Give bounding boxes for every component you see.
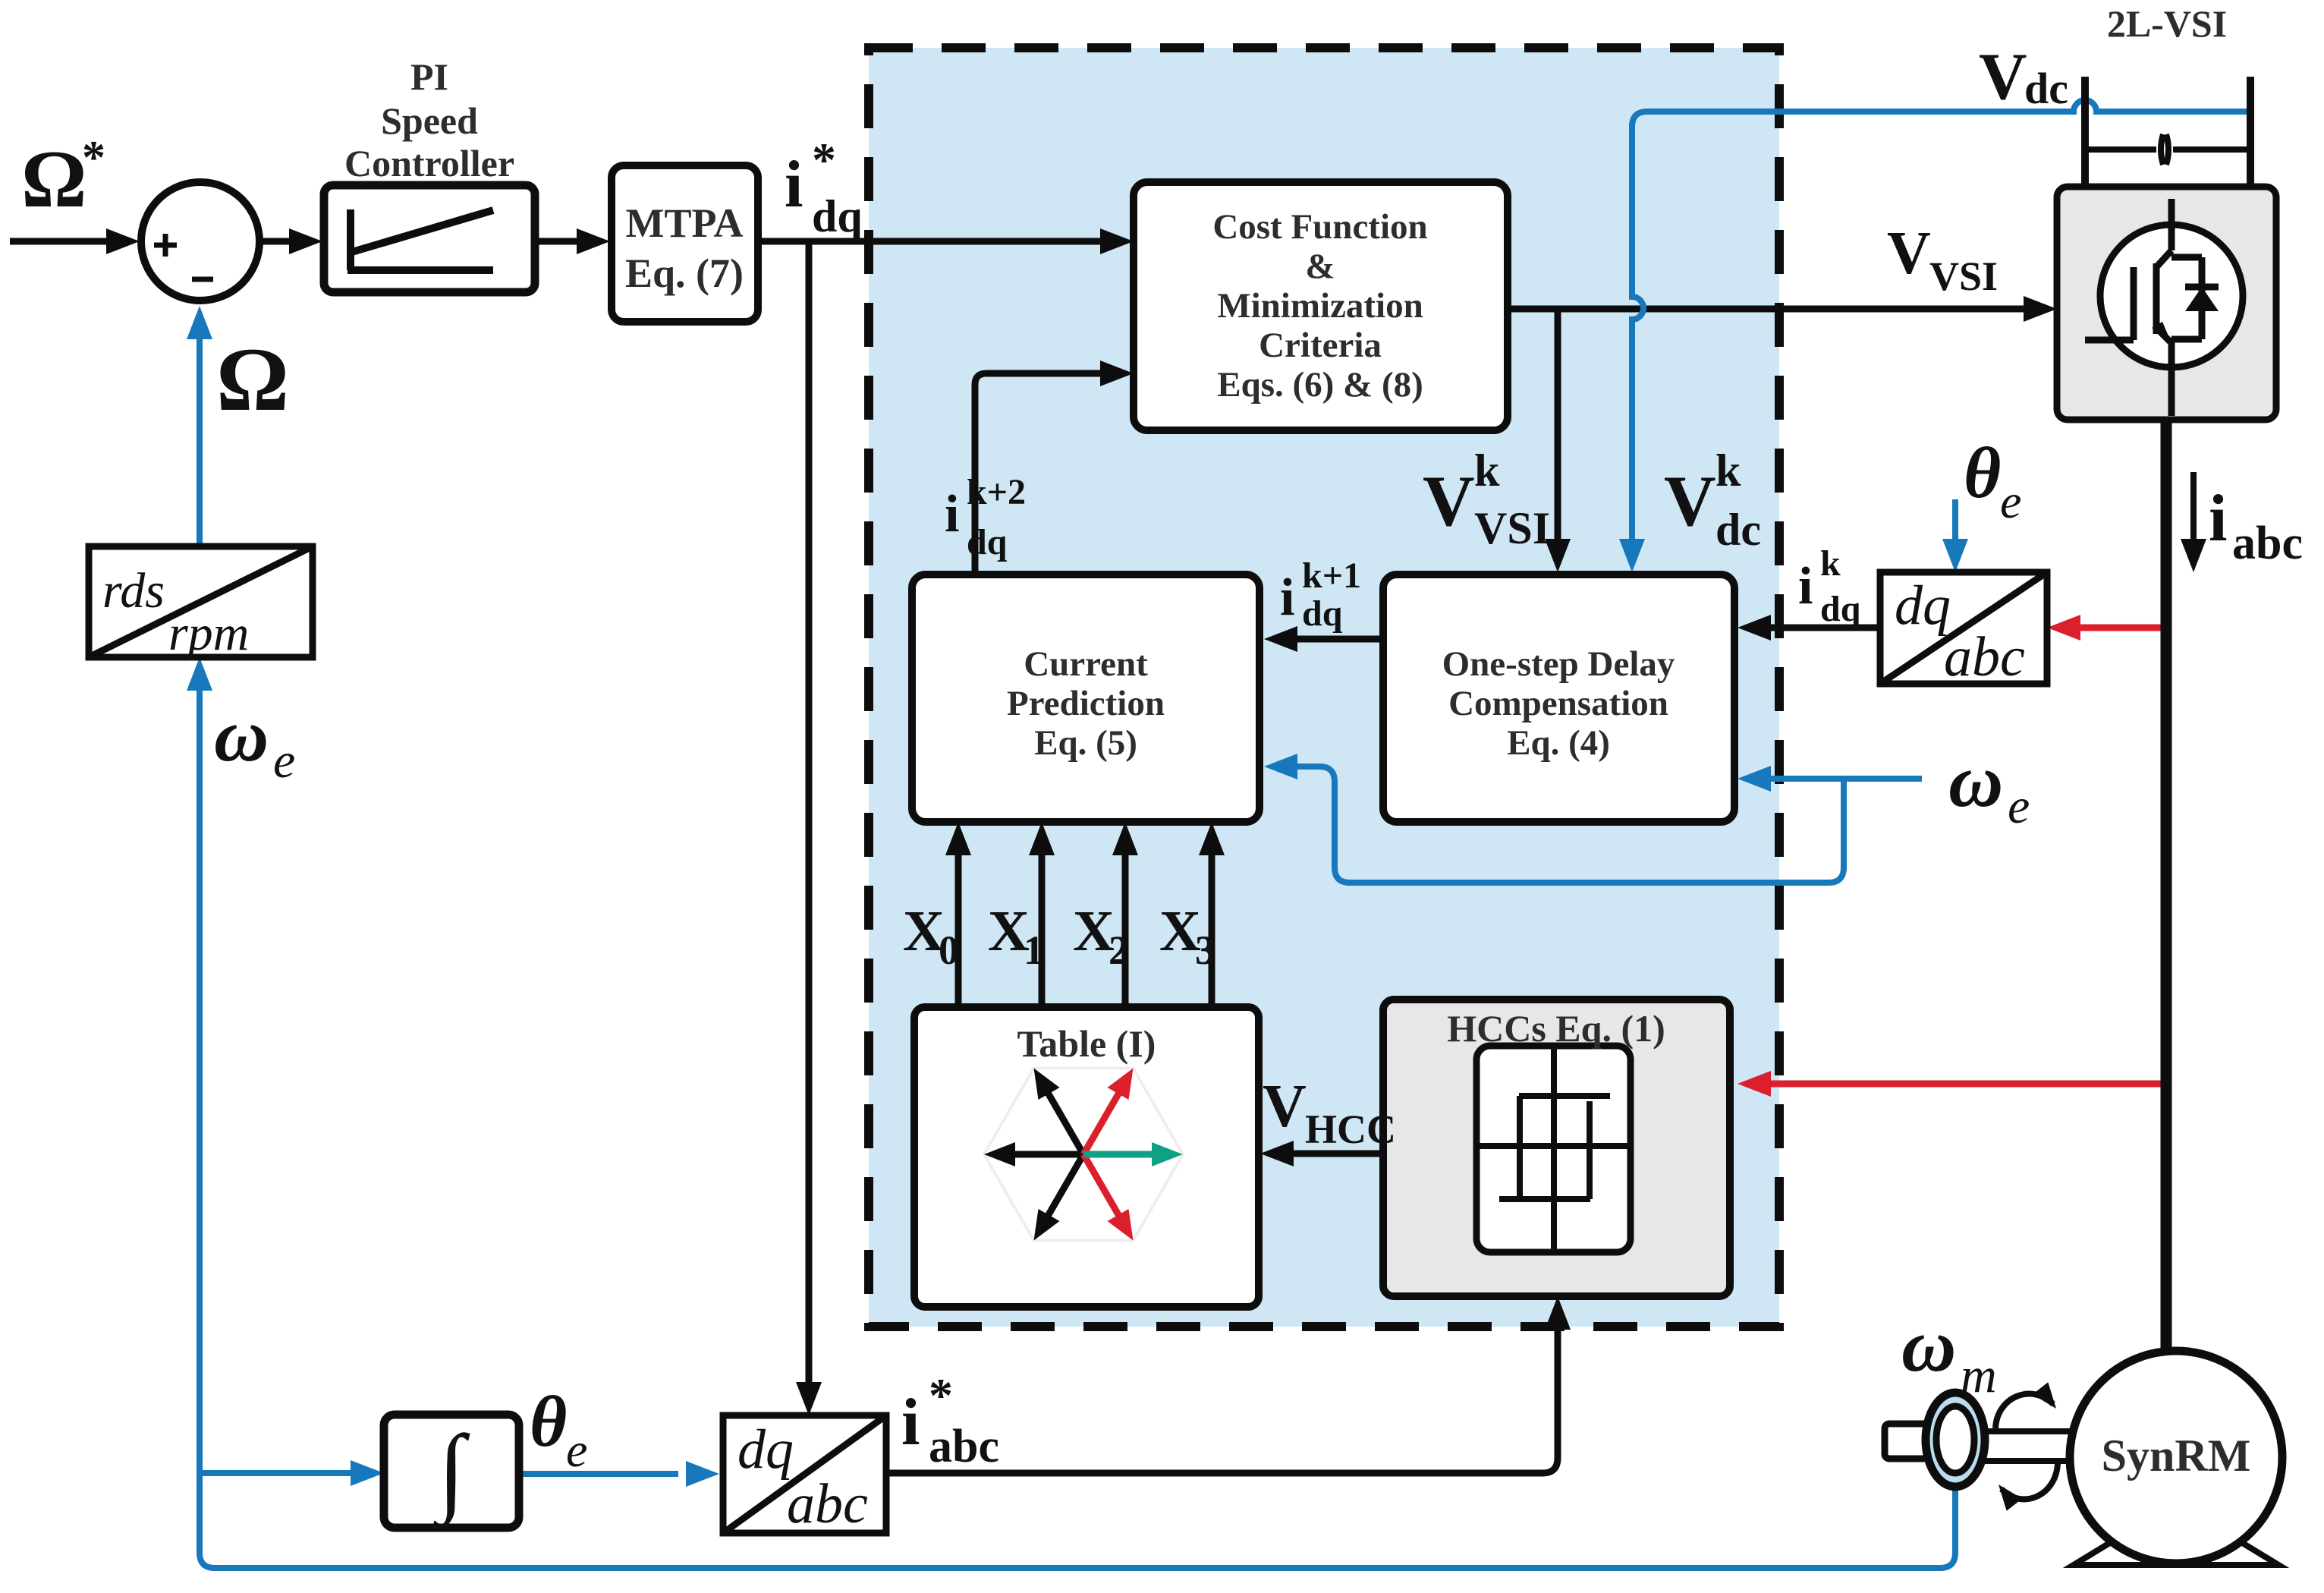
wire blue integrator to dq/abc (theta e)	[519, 1471, 678, 1477]
integrator block	[384, 1415, 519, 1528]
svg-text:ω: ω	[1948, 738, 2003, 823]
svg-text:*: *	[929, 1368, 953, 1422]
DC link capacitor	[2085, 146, 2156, 153]
svg-text:PI: PI	[410, 55, 448, 98]
summing junction	[141, 182, 259, 301]
svg-text:dq: dq	[1820, 589, 1861, 629]
wire blue rds/rpm to summing junction (Omega)	[197, 338, 203, 546]
wire blue omega e to One-step Delay	[1769, 776, 1922, 782]
svg-text:V: V	[1979, 40, 2027, 114]
dq/abc transform (measurement, right)	[1880, 572, 2047, 684]
vector 300 deg (red)	[1083, 1154, 1134, 1241]
vector V0 left (black)	[984, 1142, 1083, 1166]
Current Prediction block	[912, 575, 1259, 822]
svg-text:e: e	[2008, 779, 2030, 834]
svg-text:Ω: Ω	[216, 329, 289, 430]
2L-VSI block	[2057, 187, 2276, 420]
wire blue branch to integrator	[200, 1470, 352, 1476]
wire X0 arrow	[955, 854, 962, 1004]
wire One-step Delay to Current Prediction (i k+1 dq)	[1296, 636, 1383, 643]
wire X1 arrow	[1039, 854, 1046, 1004]
svg-text:dq: dq	[1302, 593, 1343, 634]
svg-text:&: &	[1305, 247, 1335, 286]
svg-text:SynRM: SynRM	[2102, 1431, 2251, 1481]
svg-text:ω: ω	[214, 693, 269, 777]
svg-text:rpm: rpm	[168, 606, 249, 661]
svg-text:HCCs Eq. (1): HCCs Eq. (1)	[1447, 1007, 1665, 1050]
wire dq/abc to One-step Delay (i k dq)	[1769, 625, 1880, 631]
wire summing junction to PI	[263, 238, 291, 245]
svg-text:VSI: VSI	[1474, 503, 1550, 553]
svg-text:1: 1	[1024, 927, 1044, 973]
wire i k+2 dq feedback to Cost Function	[975, 373, 1102, 575]
svg-text:0: 0	[939, 927, 959, 973]
svg-text:i: i	[945, 485, 959, 543]
svg-text:rds: rds	[102, 563, 165, 619]
svg-text:i: i	[901, 1386, 920, 1459]
svg-text:i: i	[1798, 557, 1813, 615]
wire blue theta e stub into dq/abc	[1952, 499, 1958, 540]
wire Omega* input	[10, 238, 109, 245]
svg-text:2: 2	[1109, 927, 1129, 973]
svg-text:m: m	[1961, 1348, 1997, 1403]
svg-text:Eq. (4): Eq. (4)	[1507, 723, 1610, 763]
wire X2 arrow	[1122, 854, 1129, 1004]
svg-text:HCC: HCC	[1305, 1107, 1396, 1152]
svg-text:∫: ∫	[432, 1415, 470, 1529]
svg-text:dq: dq	[812, 191, 863, 241]
svg-text:Criteria: Criteria	[1259, 326, 1382, 365]
wire X3 arrow	[1209, 854, 1215, 1004]
svg-text:i: i	[2209, 482, 2227, 556]
svg-text:Compensation: Compensation	[1448, 684, 1668, 723]
wire i*abc from dq/abc up into HCCs	[886, 1328, 1558, 1473]
svg-text:Cost Function: Cost Function	[1212, 207, 1427, 247]
svg-text:θ: θ	[1964, 433, 2001, 513]
dq/abc transform (reference, bottom)	[723, 1415, 886, 1533]
svg-text:abc: abc	[929, 1421, 999, 1472]
svg-text:dc: dc	[2024, 64, 2068, 113]
wire MTPA to Cost Function (i*dq)	[758, 238, 1102, 245]
svg-text:k+1: k+1	[1302, 556, 1361, 596]
svg-text:e: e	[273, 733, 295, 789]
IGBT symbol	[2100, 225, 2243, 367]
svg-text:V: V	[1423, 461, 1475, 541]
rotation arrows	[1995, 1394, 2053, 1428]
svg-text:θ: θ	[530, 1381, 567, 1462]
svg-text:i: i	[1280, 568, 1294, 627]
wire blue omega e branch to Current Prediction	[1296, 767, 1844, 883]
svg-text:k: k	[1474, 445, 1500, 496]
wire blue Vk dc vertical with hop over VVSI line	[1632, 123, 1643, 540]
hexagon (space vectors)	[984, 1069, 1183, 1241]
svg-text:2L-VSI: 2L-VSI	[2107, 2, 2227, 45]
HCCs block	[1383, 1000, 1730, 1296]
wire i*dq branch down to dq/abc	[806, 241, 813, 1384]
svg-text:V: V	[1664, 461, 1716, 541]
wire Vk VSI branch down to One-step Delay	[1555, 309, 1561, 540]
svg-text:dq: dq	[1895, 575, 1951, 637]
wire HCCs to Table (V HCC)	[1292, 1151, 1383, 1157]
svg-text:e: e	[2000, 474, 2021, 528]
svg-text:Eq. (7): Eq. (7)	[625, 250, 744, 296]
svg-text:V: V	[1263, 1073, 1307, 1140]
vector 120 deg (black)	[1034, 1069, 1084, 1155]
MTPA block	[612, 165, 758, 322]
svg-text:dq: dq	[737, 1418, 794, 1481]
PI speed controller block	[324, 185, 535, 292]
svg-text:3: 3	[1195, 927, 1215, 973]
MPC dashed region fill	[869, 48, 1779, 1327]
wire red iabc tap to dq/abc	[2079, 625, 2166, 631]
svg-text:Table (I): Table (I)	[1017, 1022, 1156, 1065]
svg-text:dc: dc	[1715, 505, 1761, 555]
svg-text:MTPA: MTPA	[626, 200, 744, 246]
svg-text:Eq. (5): Eq. (5)	[1034, 723, 1137, 763]
vector 60 deg (red)	[1083, 1069, 1134, 1155]
vector 0 deg (teal)	[1083, 1142, 1183, 1166]
svg-text:Prediction: Prediction	[1007, 684, 1165, 723]
svg-text:*: *	[812, 133, 836, 187]
vector 240 deg (black)	[1034, 1154, 1084, 1241]
svg-text:e: e	[566, 1423, 587, 1477]
svg-text:VSI: VSI	[1929, 253, 1998, 299]
svg-text:ω: ω	[1901, 1303, 1956, 1387]
wire iabc direction arrow	[2190, 472, 2197, 540]
svg-text:k: k	[1715, 445, 1741, 496]
HCC hysteresis icon	[1476, 1046, 1631, 1252]
svg-text:Controller: Controller	[344, 142, 514, 184]
Cost Function block	[1134, 182, 1508, 430]
motor stand	[2074, 1533, 2278, 1565]
svg-text:k+2: k+2	[967, 472, 1026, 512]
svg-text:abc: abc	[787, 1473, 868, 1535]
svg-text:One-step Delay: One-step Delay	[1442, 644, 1675, 684]
svg-text:dq: dq	[967, 522, 1008, 562]
wire blue Vdc horizontal with hop	[1632, 100, 2250, 127]
svg-text:*: *	[82, 132, 105, 184]
svg-text:Speed: Speed	[381, 99, 478, 142]
shaft	[1927, 1428, 2071, 1434]
svg-text:k: k	[1820, 543, 1841, 584]
svg-text:V: V	[1887, 220, 1931, 287]
DC link rails	[2081, 77, 2089, 187]
wire iabc VSI to SynRM	[2161, 416, 2172, 1354]
rds/rpm block	[89, 546, 313, 657]
wire PI to MTPA	[535, 238, 578, 245]
svg-text:abc: abc	[2232, 518, 2303, 569]
svg-text:abc: abc	[1944, 626, 2025, 688]
svg-text:Ω: Ω	[21, 134, 86, 225]
encoder	[1926, 1393, 1985, 1487]
SynRM motor	[2070, 1351, 2282, 1563]
svg-text:Eqs. (6) & (8): Eqs. (6) & (8)	[1217, 365, 1423, 405]
svg-text:i: i	[785, 148, 803, 222]
svg-text:Minimization: Minimization	[1217, 286, 1423, 326]
wire blue speed feedback rail from encoder	[200, 668, 1955, 1568]
Table (I) block	[914, 1007, 1259, 1307]
One-step Delay Compensation block	[1383, 575, 1734, 822]
svg-text:Current: Current	[1024, 644, 1148, 684]
wire Cost Function output to VSI (V VSI)	[1508, 306, 2025, 313]
wire red iabc tap to HCCs	[1769, 1081, 2166, 1088]
